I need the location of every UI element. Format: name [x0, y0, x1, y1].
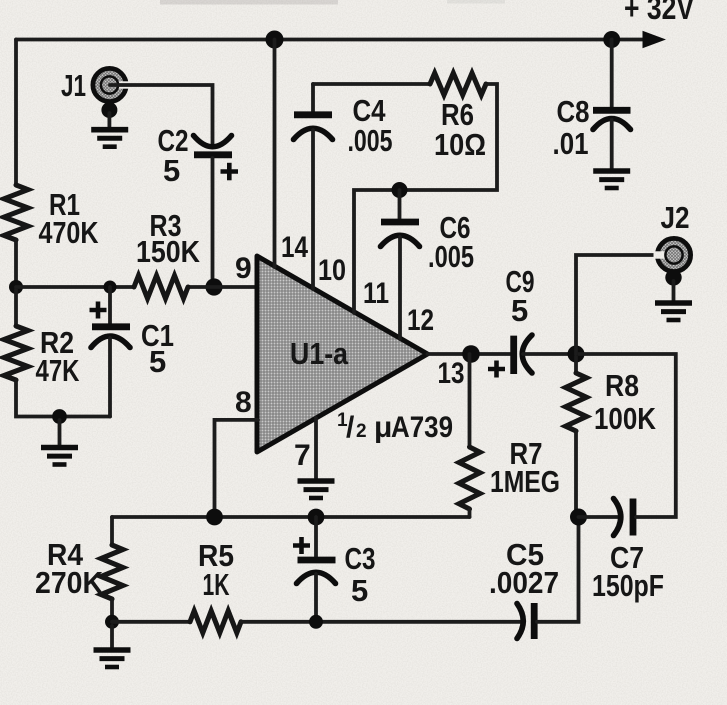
capacitor C3 [314, 517, 318, 557]
resistor R6 [430, 73, 486, 95]
pin 7 wire [314, 418, 318, 479]
ground J2 [672, 281, 676, 302]
wire left rail [14, 40, 18, 186]
capacitor C6 / pin 12 [398, 190, 402, 219]
wire J1 to C2 [110, 85, 213, 144]
connector J1 [93, 68, 126, 101]
op-amp U1-a [257, 256, 428, 452]
connector J2 [657, 238, 690, 271]
resistor R7 [468, 354, 472, 447]
junction R4 bottom [105, 615, 119, 629]
wire R2 bottom L to C1 bottom [16, 380, 110, 417]
wire R1 to node A [14, 240, 18, 287]
wire +32V power rail [16, 38, 643, 42]
J2 sleeve dot [665, 269, 681, 285]
wire R6 loop to pin 11 [354, 84, 497, 313]
wire mid rail [112, 515, 470, 519]
pin 14 wire [266, 31, 284, 49]
output wire pin 13 / C9 [428, 352, 511, 356]
resistor R8 [574, 354, 578, 373]
resistor R1 [4, 185, 28, 240]
capacitor C1 [104, 281, 117, 294]
resistor R5 [190, 611, 241, 633]
capacitor C2 [194, 136, 232, 147]
node feedback junction [570, 509, 587, 526]
ground pin 7 [298, 481, 335, 498]
junction ground tap [52, 409, 67, 424]
resistor R3 [134, 276, 188, 299]
wire C2 to node B [211, 158, 215, 287]
resistor R4 [110, 517, 114, 545]
cropped print artifact top edge [160, 0, 338, 5]
J1 sleeve dot [101, 102, 117, 118]
wire C4 top to R6 [313, 82, 430, 86]
ground R2/C1 node [58, 420, 62, 447]
ground J1 [108, 113, 112, 129]
pin 8 wire [215, 420, 259, 517]
wire bottom rail [112, 620, 190, 624]
capacitor C4 / pin 10 [311, 84, 315, 112]
capacitor C8 [603, 31, 620, 48]
node C6 junction [392, 182, 408, 198]
node B junction [205, 278, 222, 295]
ground C8 [593, 171, 630, 188]
arrowhead +32V [643, 31, 667, 48]
capacitor C9 [510, 336, 517, 374]
capacitor C7 [579, 515, 620, 519]
capacitor C5 [517, 604, 523, 639]
resistor R2 [14, 287, 18, 326]
wire input row / pin 9 [16, 285, 134, 289]
ground R4 [110, 626, 114, 649]
node output junction [568, 346, 585, 363]
wire to J2 [576, 255, 673, 354]
node A junction [9, 280, 23, 294]
